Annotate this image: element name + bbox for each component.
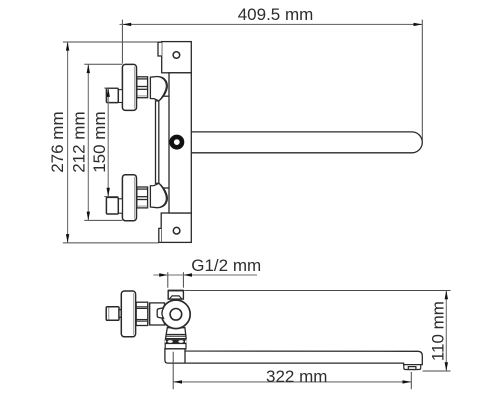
top view spout mount ring: [172, 137, 182, 147]
top view wall plate lower tab: [159, 228, 161, 242]
top view upper handle knob: [122, 64, 136, 110]
dimension 409.5 mm arrow left: [122, 23, 131, 26]
side view neck inner trapezoid: [169, 296, 182, 299]
side view outlet collar trapezoid: [166, 328, 187, 339]
side view ribbed ring white ellipse 2: [178, 340, 183, 343]
side view thread neck nut: [168, 291, 183, 300]
svg-text:150 mm: 150 mm: [90, 111, 109, 172]
top view upper hex facet lines: [137, 78, 148, 80]
side view spout left block edge: [184, 351, 186, 363]
top view wall plate lower: [161, 213, 191, 242]
dimension 276 mm arrow top: [66, 42, 69, 51]
top view lower screw hole: [173, 227, 180, 234]
top view upper valve boss: [154, 95, 169, 97]
dimension 276 mm extension line top: [63, 41, 158, 43]
dimension 409.5 mm arrow right: [414, 23, 423, 26]
dimension 212 mm arrow bottom: [87, 212, 90, 221]
side view valve block: [150, 303, 165, 325]
dimension G1/2 extension line right: [182, 272, 184, 288]
dimension 212 mm extension line bottom: [84, 219, 122, 221]
top view lower handle dome cap inner curve: [158, 183, 167, 207]
dimension 409.5 mm extension line left: [121, 20, 123, 64]
top view upper screw hole: [173, 52, 180, 59]
dimension 322 line: [173, 381, 411, 383]
dimension 110 arrow top: [445, 291, 448, 300]
svg-text:409.5 mm: 409.5 mm: [238, 5, 314, 24]
dimension 110 extension line bottom: [423, 370, 451, 372]
top view lower stem: [106, 197, 118, 214]
top view upper handle dome cap inner curve: [158, 77, 167, 101]
top view upper hex adapter: [137, 77, 148, 98]
svg-text:G1/2 mm: G1/2 mm: [191, 256, 261, 275]
dimension G1/2 extension line left: [167, 272, 169, 288]
side view valve body circle: [162, 300, 191, 329]
top view lower valve boss: [154, 187, 169, 189]
dimension 212 mm line: [87, 64, 89, 220]
dimension G1/2 arrow left: [159, 273, 168, 276]
top view wall plate upper tab: [158, 42, 162, 56]
dimension 409.5 mm line: [120, 23, 423, 25]
dimension 110 arrow bottom: [445, 362, 448, 371]
svg-text:212 mm: 212 mm: [70, 111, 89, 172]
svg-text:276 mm: 276 mm: [48, 111, 67, 172]
side view valve inner circle: [170, 309, 182, 321]
dimension G1/2 line: [153, 274, 257, 276]
dimension 150 mm extension line top: [104, 87, 118, 89]
side view ribbed ring: [164, 339, 186, 343]
side view valve left nub: [157, 308, 163, 318]
dimension 150 mm arrow top: [107, 88, 110, 97]
top view upper stem: [106, 88, 118, 102]
dimension 110 extension line top: [184, 290, 450, 292]
side view collar band lines: [166, 334, 186, 336]
top view lower handle dome cap: [150, 183, 167, 207]
top view spout: [191, 132, 422, 153]
dimension 212 mm extension line top: [84, 63, 122, 65]
side view aerator nub: [408, 367, 416, 370]
dimension 276 mm line: [67, 42, 69, 243]
dimension 276 mm extension line bottom: [63, 242, 159, 244]
side view ribbed ring end sliver right: [185, 340, 187, 343]
dimension 212 mm arrow top: [87, 64, 90, 73]
top view lower hex facet lines: [137, 188, 148, 190]
svg-text:322 mm: 322 mm: [266, 367, 327, 386]
top view upper handle dome cap: [150, 76, 167, 100]
top view upper stem connector: [118, 90, 122, 103]
svg-text:110 mm: 110 mm: [428, 301, 447, 361]
side view ribbed ring white ellipse 1: [168, 340, 173, 343]
top view body bar: [169, 73, 191, 213]
top view lower stem connector: [118, 199, 122, 213]
dimension 150 mm line: [107, 88, 109, 197]
side view handle stem: [106, 307, 119, 321]
side view ribbed ring end sliver left: [164, 340, 166, 343]
top view wall plate upper: [162, 42, 192, 73]
side view hex nut: [136, 302, 148, 325]
dimension 110 line: [445, 291, 447, 372]
dimension 322 arrow left: [173, 380, 182, 383]
dimension 150 mm extension line bottom: [104, 196, 118, 198]
side view hex-block gap strip: [148, 303, 150, 324]
side view spout: [165, 349, 422, 365]
side view stem inner line: [108, 308, 110, 320]
top view lower knob edge line: [133, 177, 135, 219]
dimension 409.5 mm extension line right: [421, 20, 423, 141]
side view handle knob: [121, 291, 135, 337]
side view stem connector: [119, 310, 121, 318]
top view upper knob edge line: [133, 67, 135, 109]
side view lower collar: [165, 344, 186, 349]
top view connecting bar between handles: [156, 101, 159, 183]
side view knob edge line: [132, 293, 134, 335]
top view lower handle knob: [122, 175, 136, 221]
dimension 322 extension line left: [172, 352, 174, 390]
dimension 150 mm arrow bottom: [107, 188, 110, 197]
dimension 276 mm arrow bottom: [66, 234, 69, 243]
side view aerator: [404, 365, 421, 370]
side view hex facet lines: [136, 306, 148, 308]
dimension G1/2 arrow right: [183, 273, 192, 276]
dimension 322 extension line right: [410, 372, 412, 389]
top view lower hex adapter: [137, 187, 148, 208]
dimension 322 arrow right: [403, 380, 412, 383]
